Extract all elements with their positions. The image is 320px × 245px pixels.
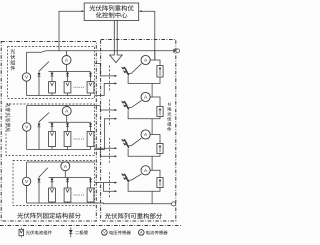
switch linkage dashed S3	[109, 138, 111, 164]
diode D23 (string 3)	[89, 123, 92, 126]
wire blocking diode column block2	[38, 122, 40, 150]
inner dashed box: module group 2	[6, 104, 95, 156]
switch linkage dashed S2	[109, 100, 111, 126]
series element inner arrow unit3	[159, 145, 162, 153]
PV module rectangle block2 string1	[49, 131, 56, 146]
wire unit2 bottom loop	[128, 110, 160, 119]
wire gap to unit3 contact a	[95, 147, 116, 149]
switch S2a contact arrow	[115, 109, 118, 111]
PV module rectangle block2 string3	[87, 131, 94, 146]
wire V3 top lead	[26, 162, 28, 177]
switch S3b contact arrow	[115, 155, 118, 157]
control box label line2 化控制中心	[96, 12, 128, 18]
wire V2 top lead	[26, 106, 28, 123]
diode D11 (string 1)	[51, 73, 54, 76]
legend label 二极管	[75, 231, 88, 235]
switch S2b contact arrow	[115, 118, 118, 120]
wire string3 upper block2	[90, 122, 92, 131]
ellipsis dots block2	[74, 138, 84, 141]
wire gap jog to unit3 contact b	[100, 148, 115, 156]
switch linkage dashed S4	[109, 172, 111, 198]
ammeter A5 (unit 2)	[141, 92, 150, 101]
series element rectangle unit4	[157, 178, 163, 188]
PV module light arrows unit3	[121, 139, 126, 146]
label right vertical N块光伏组件	[167, 103, 171, 132]
wire string1 lower block3	[51, 202, 53, 203]
wire chain unit1 to unit2	[151, 83, 153, 97]
wire bottom bus block1	[27, 95, 91, 97]
PV module light arrows unit2	[121, 101, 126, 108]
wire gap block2 top to unit2 contact a	[95, 106, 116, 111]
label block1 vertical 光伏组件	[10, 49, 15, 70]
wire unit2 ammeter to module resistor	[150, 97, 160, 107]
legend voltmeter symbol	[102, 230, 108, 236]
diode D33 (string 3)	[89, 179, 92, 182]
PV module symbol unit2 (slanted bars)	[124, 101, 129, 109]
wire A3 top lead	[64, 161, 66, 163]
PV module inner chevron block1 string2	[66, 83, 69, 86]
wire gap block2 bottom to unit2 contact b	[95, 119, 116, 150]
arrowhead into control box left edge	[82, 10, 85, 12]
series element inner arrow unit4	[159, 179, 162, 187]
diode D20 (blocking)	[38, 124, 41, 127]
PV module inner chevron block2 string3	[89, 132, 92, 135]
wire A3 bottom lead	[64, 171, 66, 178]
wire V3 bottom lead	[26, 186, 28, 203]
PV module inner chevron block2 string1	[50, 132, 53, 135]
wire string3 lower block2	[90, 147, 92, 150]
wire sensor feedback left (node up from bus x59)	[59, 11, 82, 51]
wire unit3 bottom loop	[128, 148, 160, 156]
wire string1 upper block1	[51, 72, 53, 82]
ammeter A1 (block 1)	[62, 56, 71, 65]
PV module symbol unit3 (slanted bars)	[124, 139, 129, 147]
wire unit1 to top bus stub	[154, 51, 156, 60]
wire string1 upper block3	[51, 177, 53, 188]
legend label 电压传感器	[109, 231, 130, 235]
voltmeter V2	[23, 123, 31, 131]
wire unit2 module to ammeter (slant)	[128, 101, 142, 108]
PV module symbol unit1 (slanted bars)	[124, 67, 129, 75]
voltmeter V1	[22, 73, 30, 81]
diode D22 (string 2)	[66, 123, 69, 126]
outer dash-dot box: reconfigurable part	[101, 40, 176, 222]
PV module inner chevron block1 string3	[89, 83, 92, 86]
wire chain unit4 to bottom bus	[151, 191, 153, 204]
legend label 光伏电池组件	[26, 231, 52, 235]
wire string3 upper block1	[90, 72, 92, 82]
wire blocking diode column block1	[38, 71, 40, 95]
hollow block arrow from control box down to reconfigurable part	[110, 21, 123, 63]
inner dashed box: module group 3	[13, 161, 95, 206]
wire unit3 ammeter to module resistor	[150, 135, 160, 144]
PV module symbol unit4 (slanted bars)	[124, 174, 129, 182]
PV module rectangle block1 string3	[87, 82, 94, 94]
PV module inner chevron block1 string1	[50, 83, 53, 86]
PV module rectangle block3 string2	[64, 188, 71, 202]
series element rectangle unit3	[157, 144, 163, 154]
wire string2 upper block2	[67, 122, 69, 131]
ammeter A7 (unit 4)	[141, 166, 150, 175]
wire unit4 module to ammeter (slant)	[128, 174, 142, 180]
wire bottom bus to output terminal	[95, 202, 172, 205]
wire string2 lower block3	[67, 202, 69, 203]
wire diagonal to blocking diode column block1	[39, 62, 49, 72]
PV module light arrows unit1	[121, 67, 126, 74]
wire unit3 module to ammeter (slant)	[128, 138, 142, 146]
wire string top bus block3	[49, 176, 91, 178]
wire unit4 bottom loop	[128, 183, 160, 191]
wire A2 top lead	[66, 106, 68, 107]
wire block2 top rail	[27, 105, 95, 107]
ammeter A6 (unit 3)	[141, 130, 150, 139]
wire gap to unit4 contact a	[95, 182, 116, 184]
diode D30 (blocking)	[38, 179, 41, 182]
wire string2 upper block1	[67, 72, 69, 82]
wire V2 bottom lead	[26, 131, 28, 149]
ammeter A3 (block 3)	[61, 162, 70, 171]
PV module rectangle block1 string2	[64, 82, 71, 94]
control box label line1 光伏阵列重构优	[89, 5, 133, 11]
wire string3 upper block3	[90, 177, 92, 188]
switch S3a contact arrow	[115, 147, 118, 149]
ammeter A4 (unit 1)	[141, 55, 150, 64]
diode D13 (string 3)	[89, 73, 92, 76]
switch linkage dashed S1	[109, 66, 111, 91]
diode D12 (string 2)	[66, 73, 69, 76]
diode D31 (string 1)	[51, 179, 54, 182]
wire unit1 module to ammeter (slant)	[128, 64, 142, 74]
wire chain unit3 to unit4	[151, 156, 153, 170]
ellipsis dots block3	[74, 194, 84, 197]
inner dashed box: module group 1	[8, 47, 95, 99]
ammeter A2 (block 2)	[62, 107, 71, 116]
label block2 vertical M块光伏组件	[6, 103, 10, 132]
switch S1b contact arrow	[115, 82, 118, 84]
wire gap block1 bottom to unit1 contact b	[95, 83, 116, 95]
switch S1a contact arrow	[115, 75, 118, 77]
wire bottom bus block3	[27, 202, 95, 204]
wire string1 lower block2	[51, 147, 53, 150]
PV module inner chevron block3 string1	[50, 189, 53, 192]
wire string2 lower block1	[67, 93, 69, 96]
PV module inner chevron block3 string2	[66, 189, 69, 192]
wire unit1 bottom loop	[128, 76, 160, 83]
wire blocking diode column block3	[38, 177, 40, 203]
label right section 光伏阵列可重构部分	[105, 213, 162, 219]
switch S4a contact arrow	[115, 182, 118, 184]
series element inner arrow unit1	[159, 67, 162, 76]
wire V1 bottom lead	[26, 81, 28, 95]
PV module rectangle block3 string3	[87, 188, 94, 202]
diode D10 (blocking)	[38, 73, 41, 76]
wire A1 bottom lead	[66, 65, 68, 72]
wire string2 lower block2	[67, 147, 69, 150]
wire A1 top lead	[66, 51, 68, 56]
legend PV module symbol	[19, 228, 24, 238]
switch S4b contact arrow	[115, 190, 118, 192]
wire string3 lower block3	[90, 202, 92, 203]
PV module inner chevron block2 string2	[66, 132, 69, 135]
PV module rectangle block3 string1	[49, 188, 56, 202]
series element rectangle unit2	[157, 107, 163, 117]
label left section 光伏阵列固定结构部分	[17, 213, 81, 219]
wire gap jog to unit4 contact b	[103, 183, 115, 192]
PV module inner chevron block3 string3	[89, 189, 92, 192]
wire A2 bottom lead	[66, 116, 68, 123]
wire string top bus block2	[49, 121, 91, 123]
legend separator dash-dot line	[0, 225, 182, 227]
wire string2 upper block3	[67, 177, 69, 188]
wire string1 lower block1	[51, 93, 53, 96]
wire V1 top lead	[26, 52, 28, 73]
wire string1 upper block2	[51, 122, 53, 131]
voltmeter V3	[22, 177, 30, 185]
wire top bus to output terminal	[27, 51, 176, 53]
diode D32 (string 2)	[66, 179, 69, 182]
output terminal circle (bottom, array -)	[172, 202, 176, 206]
wire string top bus block1	[49, 71, 91, 73]
legend ammeter symbol	[139, 230, 145, 236]
legend label 电流传感器	[146, 231, 167, 235]
PV module light arrows unit4	[121, 173, 126, 180]
ellipsis dots block1	[74, 86, 84, 89]
wire unit4 ammeter to module resistor	[150, 170, 160, 177]
control center box U-CTRL	[84, 3, 139, 21]
outer dash-dot box: fixed structure part	[1, 42, 96, 222]
wire block3 top rail	[27, 161, 95, 163]
wire diagonal to blocking diode column block2	[39, 113, 49, 122]
wire sensor feedback right (x155 down to unit1)	[142, 11, 155, 60]
series element inner arrow unit2	[159, 108, 162, 116]
wire chain unit2 to unit3	[151, 119, 153, 135]
wire string3 lower block1	[90, 93, 92, 96]
PV module rectangle block1 string1	[49, 82, 56, 94]
border crossing tick at top terminal	[173, 49, 175, 53]
wire diagonal to blocking diode column block3	[39, 168, 48, 177]
legend diode symbol	[69, 227, 73, 237]
output terminal circle (top, array +)	[176, 49, 180, 53]
wire unit1 ammeter to module resistor	[150, 60, 160, 66]
diode D21 (string 1)	[51, 123, 54, 126]
series element rectangle unit1	[157, 66, 163, 78]
wire gap block1 to unit1 contact a	[95, 64, 116, 76]
PV module rectangle block2 string2	[64, 131, 71, 146]
wire bottom bus block2	[27, 149, 91, 151]
arrowhead into control box right edge	[139, 10, 142, 12]
